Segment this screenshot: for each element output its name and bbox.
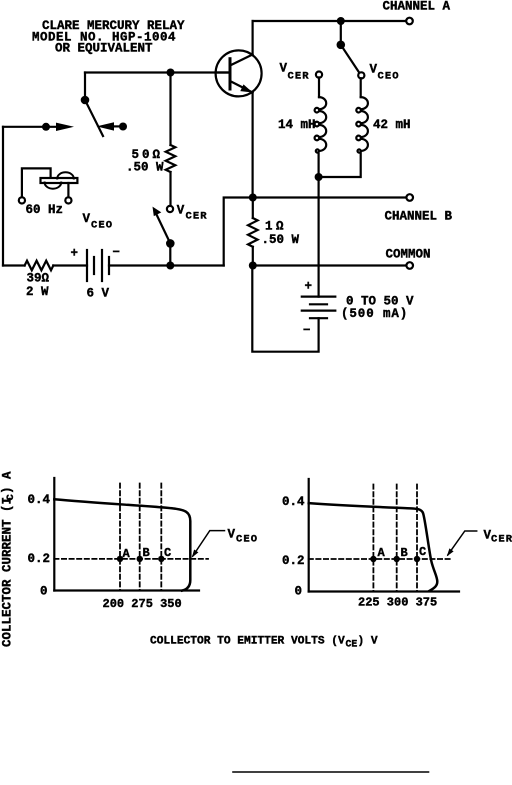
graph1 dashed vertical B	[139, 484, 141, 591]
graph1 point B	[137, 556, 143, 562]
terminal V_CER open circle	[167, 206, 173, 212]
graph x-axis title	[150, 636, 378, 650]
graph1 callout arrowhead	[192, 550, 199, 558]
graph2 y-axis	[308, 479, 310, 592]
graph1 label 0.2	[28, 552, 51, 566]
graph1 label 0.4	[28, 493, 51, 507]
svg-text:.50 W: .50 W	[126, 161, 164, 175]
node right contact dot	[119, 123, 127, 131]
svg-text:0.4: 0.4	[28, 493, 51, 507]
node left contact dot	[42, 123, 50, 131]
transistor Q1 collector diagonal	[230, 55, 253, 66]
svg-text:A: A	[378, 546, 386, 560]
graph2 dashed vertical B	[396, 485, 398, 592]
wire emitter lead	[252, 93, 254, 198]
label 50 ohm	[126, 148, 164, 175]
resistor R 1ohm body	[248, 218, 258, 247]
graph2 dashed horizontal 0.2	[309, 558, 452, 560]
wire 14mH bottom lead	[318, 152, 320, 177]
graph2 point A	[370, 556, 376, 562]
source 60 Hz sine wave	[45, 172, 74, 188]
transistor Q1 circle	[216, 50, 262, 96]
wire right contact stub	[113, 125, 123, 127]
graph1 x tick labels	[103, 597, 182, 611]
svg-text:COMMON: COMMON	[386, 248, 431, 262]
wire 42mH bottom to junction	[319, 152, 361, 177]
svg-text:V: V	[228, 528, 236, 542]
svg-text:CER: CER	[491, 533, 512, 545]
label battery plus	[71, 247, 79, 261]
footer rule	[233, 771, 429, 773]
terminal COMMON	[406, 262, 413, 269]
graph2 callout arrow	[448, 531, 477, 555]
svg-text:CHANNEL A: CHANNEL A	[383, 0, 451, 14]
graph2 x tick labels	[358, 596, 437, 610]
graph1 y-axis	[53, 478, 55, 591]
wire to battery	[53, 264, 87, 266]
terminal CHANNEL B	[406, 194, 413, 201]
inductor L2 42mH coil	[356, 97, 368, 152]
svg-text:CEO: CEO	[91, 220, 113, 232]
svg-text:B: B	[401, 546, 408, 560]
node COMMON junction	[249, 262, 257, 270]
wire base rail	[85, 71, 229, 73]
graph1 label 0	[40, 585, 48, 599]
svg-text:0.2: 0.2	[28, 552, 51, 566]
svg-text:(500 mA): (500 mA)	[341, 307, 408, 321]
svg-text:39Ω: 39Ω	[27, 272, 50, 286]
battery BT2 0-50V plates	[302, 297, 336, 319]
svg-text:V: V	[83, 212, 91, 226]
svg-text:2 W: 2 W	[26, 285, 49, 299]
node junction base/50ohm	[167, 69, 175, 77]
graph2 label C	[419, 545, 426, 559]
label 39 ohm 2 W	[26, 272, 50, 300]
graph2 label 0.4	[282, 495, 305, 509]
battery BT1 6V plates	[87, 250, 109, 281]
graph1 V_CEO callout label	[228, 528, 259, 546]
transistor Q1 base bar	[229, 59, 232, 89]
terminal 60Hz right	[65, 197, 71, 203]
terminal V_CEO node	[358, 72, 364, 78]
wire corner up to emitter rail	[224, 198, 253, 266]
terminal 60Hz left	[19, 197, 25, 203]
label CHANNEL A	[383, 0, 451, 14]
graph2 point C	[414, 556, 420, 562]
node V_CER switch bottom dot	[166, 262, 174, 270]
graph2 dashed vertical A	[372, 485, 374, 592]
graph1 dashed vertical A	[119, 484, 121, 591]
wire 60Hz right lead	[67, 183, 69, 198]
graph1 dashed horizontal 0.2	[54, 558, 208, 560]
inductor L1 14mH coil	[315, 97, 327, 152]
graph2 curve V_CER	[309, 503, 438, 591]
relay K1 pivot	[81, 96, 90, 105]
label 6 V	[87, 287, 110, 301]
wire 50ohm to V_CER terminal	[169, 172, 171, 206]
switch S2 arrowhead	[153, 207, 162, 217]
label 0 TO 50 V	[341, 295, 414, 322]
label 14 mH	[278, 118, 316, 132]
resistor R 50ohm body	[166, 145, 176, 172]
svg-text:B: B	[143, 546, 150, 560]
graph2 label 0	[295, 585, 303, 599]
relay K1 left fixed contact arrow	[56, 123, 74, 131]
svg-text:) V: ) V	[358, 636, 378, 648]
label V_CEO node	[370, 63, 400, 83]
resistor R 39ohm	[25, 261, 54, 271]
svg-text:6 V: 6 V	[87, 287, 110, 301]
graph2 point B	[394, 556, 400, 562]
source 60 Hz bar	[41, 178, 78, 183]
node emitter junction	[249, 194, 257, 202]
wire battery to corner	[109, 264, 224, 266]
svg-text:200 275 350: 200 275 350	[103, 597, 182, 611]
graph1 label C	[164, 546, 171, 560]
label CHANNEL B	[385, 210, 453, 224]
graph2 label A	[378, 546, 386, 560]
wire left contact lead	[3, 126, 56, 128]
terminal V_CER node	[316, 72, 322, 78]
wire COMMON rail	[253, 264, 407, 266]
wire collector lead	[252, 21, 254, 55]
svg-text:CE: CE	[346, 639, 358, 650]
svg-text:OR EQUIVALENT: OR EQUIVALENT	[55, 42, 153, 56]
label V_CEO left	[83, 212, 114, 232]
label 1 ohm	[262, 220, 300, 248]
inductor L1 14mH lead	[318, 77, 320, 97]
svg-text:0.2: 0.2	[282, 554, 305, 568]
svg-text:C: C	[164, 546, 171, 560]
graph y-axis title	[1, 471, 18, 647]
graph1 callout arrow	[193, 531, 225, 556]
svg-text:CEO: CEO	[378, 71, 400, 83]
wire CHANNEL B rail	[253, 196, 407, 198]
wire switch drop	[84, 73, 86, 101]
svg-text:14 mH: 14 mH	[278, 118, 316, 132]
svg-text:−: −	[113, 246, 121, 260]
switch S1 pivot dot	[337, 41, 346, 50]
svg-text:−: −	[303, 324, 311, 338]
transistor Q1 base lead	[216, 71, 231, 73]
wire left vertical rail	[2, 127, 4, 266]
graph2 label 0.2	[282, 554, 305, 568]
wire CHANNEL A rail	[253, 20, 407, 22]
svg-text:) A: ) A	[1, 471, 15, 494]
label battery minus	[113, 246, 121, 260]
graph2 callout arrowhead	[447, 548, 454, 556]
graph2 label B	[401, 546, 408, 560]
transistor Q1 emitter diagonal	[230, 81, 253, 93]
resistor R 1ohm lead	[252, 198, 254, 219]
graph1 curve V_CEO	[54, 499, 190, 590]
svg-text:A: A	[123, 547, 131, 561]
graph2 V_CER callout label	[484, 528, 512, 545]
inductor L2 42mH lead	[360, 78, 362, 97]
svg-text:CEO: CEO	[236, 534, 258, 546]
graph2 x-axis	[309, 590, 459, 592]
label V_CER mid	[177, 204, 208, 223]
switch S2 V_CER arm	[157, 215, 171, 244]
svg-text:42 mH: 42 mH	[373, 118, 411, 132]
svg-text:V: V	[370, 63, 378, 77]
svg-text:CER: CER	[288, 71, 310, 83]
svg-text:1Ω: 1Ω	[265, 220, 287, 234]
title text CLARE MERCURY RELAY	[32, 19, 185, 56]
svg-text:+: +	[71, 247, 79, 261]
svg-text:0: 0	[40, 585, 48, 599]
svg-text:CHANNEL B: CHANNEL B	[385, 210, 453, 224]
graph1 label B	[143, 546, 150, 560]
node CHANNEL A junction	[337, 17, 345, 25]
label COMMON	[386, 248, 431, 262]
graph1 label A	[123, 547, 131, 561]
svg-text:COLLECTOR TO EMITTER VOLTS (V: COLLECTOR TO EMITTER VOLTS (V	[150, 636, 345, 648]
graph1 dashed vertical C	[160, 484, 162, 591]
resistor R 50ohm lead	[169, 73, 171, 146]
relay K1 right fixed contact arrow	[97, 122, 115, 130]
wire main vertical rail	[318, 177, 320, 297]
wire bottom-left rail	[3, 264, 25, 266]
label BT2 minus	[303, 324, 311, 338]
svg-text:+: +	[305, 280, 313, 294]
svg-text:V: V	[177, 204, 185, 218]
svg-text:CER: CER	[186, 211, 208, 223]
relay K1 movable arm	[85, 100, 103, 136]
svg-text:0: 0	[295, 585, 303, 599]
source 60 Hz leads	[22, 168, 51, 197]
svg-text:0.4: 0.4	[282, 495, 305, 509]
node inductor junction	[315, 173, 323, 181]
label 60 Hz	[26, 203, 64, 217]
graph1 point A	[117, 556, 123, 562]
svg-text:C: C	[419, 545, 426, 559]
graph1 point C	[158, 556, 164, 562]
label V_CER node	[280, 62, 310, 83]
wire 1ohm bottom lead	[252, 247, 254, 266]
terminal CHANNEL A	[406, 18, 413, 25]
label BT2 plus	[305, 280, 313, 294]
transistor Q1 emitter arrowhead	[240, 84, 252, 92]
wire switch S1 drop	[340, 21, 342, 45]
switch S2 pivot dot	[166, 239, 175, 248]
svg-text:COLLECTOR CURRENT (I: COLLECTOR CURRENT (I	[1, 497, 15, 647]
switch S1 arm	[341, 45, 359, 72]
label 42 mH	[373, 118, 411, 132]
wire S2 pivot to rail	[169, 243, 171, 265]
graph1 x-axis	[54, 589, 199, 591]
svg-text:225 300 375: 225 300 375	[358, 596, 437, 610]
graph2 dashed vertical C	[416, 485, 418, 592]
svg-text:60 Hz: 60 Hz	[26, 203, 64, 217]
svg-text:V: V	[280, 62, 288, 76]
wire BT2 bottom loop	[252, 266, 318, 352]
svg-text:.50 W: .50 W	[262, 233, 300, 247]
